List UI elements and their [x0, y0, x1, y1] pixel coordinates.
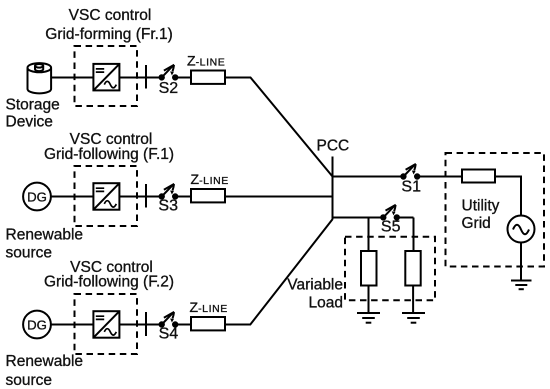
wire — [177, 77, 191, 79]
ground (load R1) — [357, 313, 380, 323]
wire — [413, 218, 415, 252]
node PCC bus — [332, 157, 334, 220]
wire — [412, 286, 414, 314]
VSC converter 2 — [93, 183, 119, 210]
label VSC control Grid-following (F.2) — [44, 259, 174, 291]
svg-text:VSC control: VSC control — [69, 7, 152, 24]
svg-text:Device: Device — [6, 114, 53, 131]
grid impedance — [462, 170, 495, 183]
wire — [368, 218, 370, 252]
svg-text:Grid: Grid — [462, 215, 491, 232]
svg-text:Grid-following (F.1): Grid-following (F.1) — [44, 146, 174, 163]
renewable source DG 1 — [23, 183, 51, 211]
switch S5 — [381, 205, 399, 220]
wire — [177, 324, 191, 326]
wire — [333, 176, 404, 178]
variable load dashed box — [345, 237, 435, 300]
wire — [225, 196, 333, 198]
svg-text:Load: Load — [309, 294, 343, 311]
svg-text:Storage: Storage — [6, 97, 60, 114]
svg-text:Renewable: Renewable — [6, 353, 84, 370]
switch S3 — [160, 184, 178, 199]
node tick 1 — [145, 65, 147, 89]
svg-text:PCC: PCC — [317, 138, 350, 155]
wire — [333, 217, 383, 219]
impedance Z-LINE 1 — [191, 71, 225, 84]
switch S2 — [160, 65, 178, 80]
label Renewable source 1 — [6, 226, 84, 261]
svg-text:DG: DG — [27, 318, 47, 333]
wire — [51, 196, 94, 198]
wire — [399, 217, 414, 219]
wire — [368, 286, 370, 314]
node tick 2 — [145, 184, 147, 208]
switch S4 — [160, 312, 178, 327]
svg-text:source: source — [6, 245, 53, 262]
AC source — [508, 216, 535, 243]
label Renewable source 2 — [6, 353, 84, 389]
wire — [420, 176, 462, 178]
wire — [225, 78, 333, 177]
svg-text:DG: DG — [27, 190, 47, 205]
label VSC control Grid-forming (Fr.1) — [45, 7, 172, 43]
wire — [520, 243, 522, 281]
utility grid dashed box — [446, 153, 545, 267]
VSC converter 3 — [93, 311, 119, 338]
wire — [51, 77, 93, 79]
wire — [495, 177, 521, 216]
wire — [225, 219, 333, 324]
wire — [51, 324, 94, 326]
svg-text:Renewable: Renewable — [6, 226, 84, 243]
svg-text:Grid-forming (Fr.1): Grid-forming (Fr.1) — [45, 26, 172, 43]
switch S1 — [401, 164, 419, 179]
impedance Z-LINE 2 — [191, 189, 225, 202]
label Storage Device — [6, 97, 60, 131]
svg-text:S5: S5 — [381, 218, 401, 235]
load resistor R2 — [405, 251, 420, 286]
svg-text:Utility: Utility — [462, 197, 500, 214]
VSC converter 1 — [93, 64, 119, 91]
wire — [119, 77, 160, 79]
label Variable Load — [287, 277, 343, 312]
svg-text:S1: S1 — [401, 178, 421, 195]
ground (utility) — [511, 281, 532, 290]
load resistor R1 — [361, 251, 377, 286]
ground (load R2) — [402, 313, 425, 323]
svg-text:S4: S4 — [159, 326, 179, 343]
svg-text:S3: S3 — [158, 198, 178, 215]
label VSC control Grid-following (F.1) — [44, 131, 174, 163]
wire — [119, 196, 160, 198]
storage device — [28, 63, 52, 93]
impedance Z-LINE 3 — [191, 317, 225, 330]
node tick 3 — [145, 312, 147, 336]
dashed control box 2 — [75, 166, 138, 226]
label Utility Grid — [462, 197, 500, 232]
svg-text:Variable: Variable — [287, 277, 343, 294]
wire — [177, 196, 191, 198]
dashed control box 3 — [75, 294, 138, 354]
renewable source DG 2 — [23, 311, 51, 339]
dashed control box 1 — [75, 46, 138, 106]
svg-text:source: source — [6, 372, 53, 389]
svg-text:Grid-following (F.2): Grid-following (F.2) — [44, 274, 174, 291]
svg-text:S2: S2 — [159, 80, 179, 97]
wire — [119, 324, 160, 326]
